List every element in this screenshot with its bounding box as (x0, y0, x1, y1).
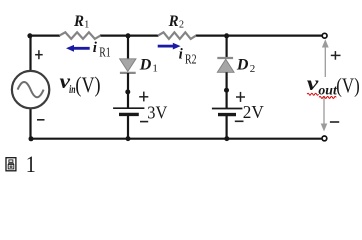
plus sign of 2V battery (236, 92, 245, 102)
plus sign of 3V battery (139, 92, 148, 102)
label D2 (236, 56, 255, 75)
svg-text:(V): (V) (336, 73, 359, 97)
svg-text:2: 2 (250, 63, 256, 75)
svg-text:1: 1 (26, 152, 36, 178)
svg-text:(V): (V) (75, 72, 100, 97)
gray arrow down toward bottom terminal (321, 97, 328, 132)
svg-text:1: 1 (84, 19, 89, 30)
red squiggly underline under vout (307, 93, 336, 98)
node junction dot bottom of D2 branch (224, 136, 229, 141)
current arrow iR1 (blue, pointing left) (66, 45, 90, 52)
resistor R2 (158, 32, 196, 39)
svg-text:out: out (318, 82, 338, 97)
minus sign of source (37, 119, 45, 121)
svg-text:R: R (168, 13, 179, 30)
minus sign at output (330, 121, 339, 123)
label vout(V) (307, 71, 360, 97)
wire D1 branch upper (127, 35, 129, 60)
wire top rail segment middle (R1 to R2) (100, 34, 158, 36)
node A top-left junction dot (27, 33, 32, 38)
plus sign of source (35, 50, 43, 59)
wire D2 branch lower (226, 115, 228, 140)
node junction dot top of D1 branch (126, 33, 131, 38)
svg-text:R1: R1 (99, 45, 111, 60)
caption figure glyph (CJK 圖) (6, 158, 16, 171)
plus sign at output (331, 51, 341, 60)
svg-text:D: D (236, 56, 249, 73)
wire D1 branch middle (127, 73, 129, 108)
node junction dot mid D2 branch (224, 88, 229, 93)
wire D2 branch upper (226, 35, 228, 58)
svg-text:1: 1 (152, 62, 158, 74)
battery 3V (113, 108, 144, 114)
node junction dot top of D2 branch (224, 33, 229, 38)
label vin(V) (60, 69, 101, 97)
node junction dot bottom of D1 branch (126, 136, 131, 141)
wire left branch lower (29, 108, 31, 140)
svg-text:2: 2 (179, 19, 184, 30)
svg-text:R: R (73, 13, 84, 30)
svg-text:3V: 3V (147, 102, 167, 122)
diode D2 (pointing up) (217, 58, 234, 72)
output terminal bottom (open circle) (322, 136, 327, 141)
minus sign of 3V battery (140, 121, 148, 123)
svg-text:R2: R2 (185, 52, 197, 67)
battery 2V (212, 109, 243, 115)
label R1 (73, 13, 89, 31)
wire D2 branch middle (226, 72, 228, 108)
wire top rail segment right (R2 to output terminal) (196, 34, 322, 36)
wire D1 branch lower (127, 115, 129, 140)
svg-text:v: v (307, 71, 319, 95)
resistor R1 (59, 32, 100, 39)
output terminal top (open circle) (322, 33, 327, 38)
svg-text:D: D (139, 56, 152, 73)
svg-text:2V: 2V (243, 102, 264, 122)
current arrow iR2 (blue, pointing right) (158, 43, 181, 50)
label iR1 (93, 40, 111, 60)
label R2 (168, 13, 184, 31)
label iR2 (179, 47, 197, 67)
label D1 (139, 56, 158, 74)
diode D1 (pointing down) (120, 59, 136, 73)
wire top rail segment left (node A to R1) (30, 34, 61, 36)
gray arrow up toward top terminal (322, 39, 329, 77)
node bottom-left junction dot (29, 136, 34, 141)
node junction dot mid D1 branch (125, 89, 130, 94)
minus sign of 2V battery (235, 120, 244, 122)
wire bottom rail (31, 138, 322, 140)
voltage source Vin (12, 71, 49, 108)
wire left branch upper (29, 35, 31, 72)
